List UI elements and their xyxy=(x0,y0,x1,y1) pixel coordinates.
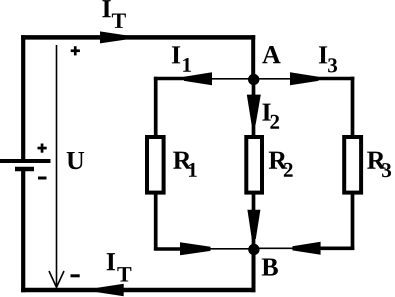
- sign bottom of voltage arrow xyxy=(71,274,80,277)
label T subscript bottom xyxy=(117,267,131,281)
wire row B left thin xyxy=(209,248,250,250)
wire row A right thick xyxy=(317,77,354,81)
voltage arrowhead open V xyxy=(49,271,64,287)
battery plate short (-) xyxy=(15,167,34,171)
label I_1 xyxy=(172,46,180,63)
wire node A drop (top wire down to node A) xyxy=(251,35,255,79)
wire branch R1 upper xyxy=(154,77,158,137)
wire branch R2 upper (node A to R2) xyxy=(252,79,256,137)
label 1 subscript R1 xyxy=(189,163,197,177)
label R_3 xyxy=(367,152,386,169)
resistor R1 body xyxy=(147,137,164,193)
battery - sign xyxy=(38,177,47,180)
wire left upper (top corner down to battery plate) xyxy=(21,35,25,160)
arrowhead into B from right (pointing left) xyxy=(292,242,320,255)
label A xyxy=(262,46,280,63)
+ sign top of voltage arrow xyxy=(71,49,80,52)
arrowhead IT bottom (current direction left) xyxy=(98,284,124,296)
arrowhead IT top (current direction right) xyxy=(100,31,126,43)
resistor R3 body xyxy=(344,137,361,193)
arrowhead I1 (pointing left) xyxy=(184,72,212,85)
wire row A left thin xyxy=(210,78,250,80)
wire top (battery + to node A corner) xyxy=(21,35,255,40)
wire row B right thick xyxy=(319,247,354,251)
label R_2 xyxy=(269,152,288,169)
voltage arrow line U xyxy=(56,45,58,287)
label R_1 xyxy=(173,152,192,169)
label I_T bottom xyxy=(107,253,115,270)
wire row B left thick xyxy=(154,247,181,251)
wire row A left thick xyxy=(154,77,186,81)
arrowhead into B from left (pointing right) xyxy=(180,242,211,255)
label 2 subscript R2 xyxy=(284,163,293,177)
label 1 subscript xyxy=(183,58,191,72)
label I_3 xyxy=(319,46,327,63)
label B xyxy=(262,258,278,275)
label 3 subscript R3 xyxy=(382,163,391,177)
battery plate long (+) xyxy=(0,159,51,163)
wire node B drop (node B down to bottom wire) xyxy=(252,250,256,293)
wire branch R3 lower xyxy=(351,193,355,251)
label U xyxy=(67,152,84,169)
wire bottom (node B to battery -) xyxy=(21,288,256,293)
label I_2 xyxy=(262,104,270,121)
wire row A right thin xyxy=(257,78,290,80)
resistor R2 body xyxy=(246,137,262,193)
arrowhead I3 (pointing right) xyxy=(290,72,318,85)
node A dot xyxy=(248,74,259,85)
battery + sign xyxy=(38,147,47,150)
wire branch R2 lower (R2 to node B) xyxy=(252,193,256,249)
label 2 subscript xyxy=(270,115,279,129)
node B dot xyxy=(248,244,259,255)
label T subscript top xyxy=(112,13,126,27)
arrowhead I2 (pointing down) xyxy=(247,95,261,125)
label 3 subscript xyxy=(328,58,337,72)
wire branch R1 lower xyxy=(154,193,158,251)
wire left lower (battery - down to bottom wire) xyxy=(21,169,25,292)
wire row B right thin xyxy=(257,247,293,249)
arrowhead into node B (pointing down) xyxy=(247,210,260,239)
label I_T top xyxy=(102,0,110,17)
wire branch R3 upper xyxy=(351,77,355,137)
